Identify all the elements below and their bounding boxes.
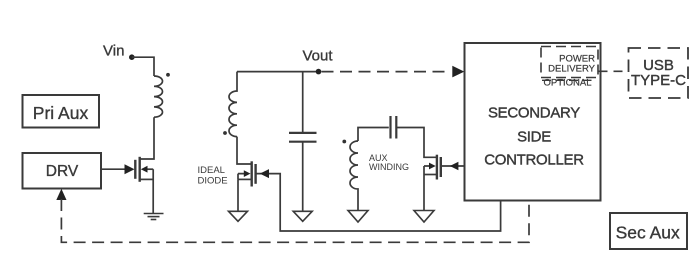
capacitor C2 aux coupling bbox=[391, 116, 397, 139]
wire controller to Q2 gate with arrow bbox=[256, 169, 501, 231]
ground C1 triangle bbox=[293, 211, 312, 221]
wire secondary winding to Q2 drain bbox=[237, 137, 251, 164]
box secondary side controller bbox=[465, 43, 601, 201]
svg-text:DELIVERY: DELIVERY bbox=[548, 63, 595, 74]
svg-text:TYPE-C: TYPE-C bbox=[631, 72, 686, 89]
svg-text:CONTROLLER: CONTROLLER bbox=[484, 151, 584, 168]
wire Q2 source to ground bbox=[237, 179, 239, 211]
transistor Q2 ideal diode MOSFET bbox=[238, 161, 256, 186]
transformer primary winding bbox=[154, 73, 170, 117]
wire DRV output to Q1 gate bbox=[101, 164, 135, 174]
capacitor C1 output bbox=[289, 72, 317, 212]
wire secondary top to Vout node bbox=[237, 71, 319, 73]
node Vout bbox=[303, 48, 334, 75]
box Pri Aux bbox=[23, 95, 100, 128]
svg-text:IDEAL: IDEAL bbox=[198, 165, 225, 176]
svg-text:Sec Aux: Sec Aux bbox=[616, 223, 680, 243]
wire Q1 source to ground bbox=[152, 169, 154, 213]
wire C2 to Q3 drain bbox=[396, 128, 436, 158]
svg-text:Vout: Vout bbox=[303, 48, 334, 65]
ground aux winding triangle bbox=[348, 211, 368, 223]
node Vin bbox=[103, 43, 135, 61]
svg-text:DRV: DRV bbox=[46, 163, 79, 180]
box DRV bbox=[23, 153, 102, 189]
wire Vin to primary winding bbox=[132, 57, 154, 76]
aux winding bbox=[342, 128, 388, 211]
svg-text:Pri Aux: Pri Aux bbox=[33, 103, 89, 123]
transistor Q3 SR MOSFET bbox=[424, 155, 441, 180]
dashed link power delivery to USB bbox=[599, 70, 629, 72]
transistor Q1 primary MOSFET bbox=[135, 157, 153, 182]
primary polarity dot bbox=[166, 73, 170, 77]
box USB Type-C dashed bbox=[629, 48, 689, 98]
aux polarity dot bbox=[342, 140, 346, 144]
svg-text:SIDE: SIDE bbox=[517, 128, 551, 145]
box Sec Aux bbox=[610, 213, 687, 249]
box power delivery dashed bbox=[541, 47, 598, 78]
label IDEAL DIODE bbox=[198, 165, 228, 187]
wire primary winding to Q1 drain bbox=[141, 117, 155, 159]
svg-text:OPTIONAL: OPTIONAL bbox=[544, 78, 592, 89]
svg-text:Vin: Vin bbox=[103, 43, 124, 60]
svg-text:DIODE: DIODE bbox=[198, 176, 228, 187]
svg-text:WINDING: WINDING bbox=[369, 162, 409, 172]
svg-text:SECONDARY: SECONDARY bbox=[488, 105, 580, 122]
wire controller to Q3 gate with arrow bbox=[441, 162, 465, 171]
label OPTIONAL bbox=[542, 78, 592, 89]
secondary polarity dot bbox=[223, 131, 227, 135]
transformer secondary winding bbox=[223, 72, 237, 137]
ground Q3 source triangle bbox=[414, 211, 434, 223]
wire Q3 source to ground bbox=[423, 175, 425, 211]
ground primary earth symbol bbox=[144, 214, 164, 220]
dashed feedback line controller to DRV bbox=[56, 189, 529, 243]
label AUX WINDING bbox=[369, 153, 409, 172]
ground Q2 source triangle bbox=[229, 211, 248, 221]
dashed Vout sense line to controller bbox=[322, 66, 465, 78]
